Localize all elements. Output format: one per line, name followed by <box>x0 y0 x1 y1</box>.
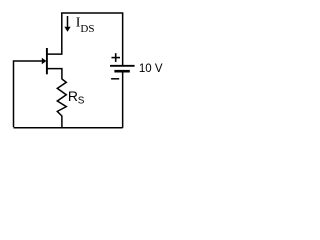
svg-text:DS: DS <box>80 23 94 35</box>
svg-text:R: R <box>68 88 78 104</box>
svg-text:S: S <box>78 96 85 107</box>
svg-text:10 V: 10 V <box>139 63 163 75</box>
